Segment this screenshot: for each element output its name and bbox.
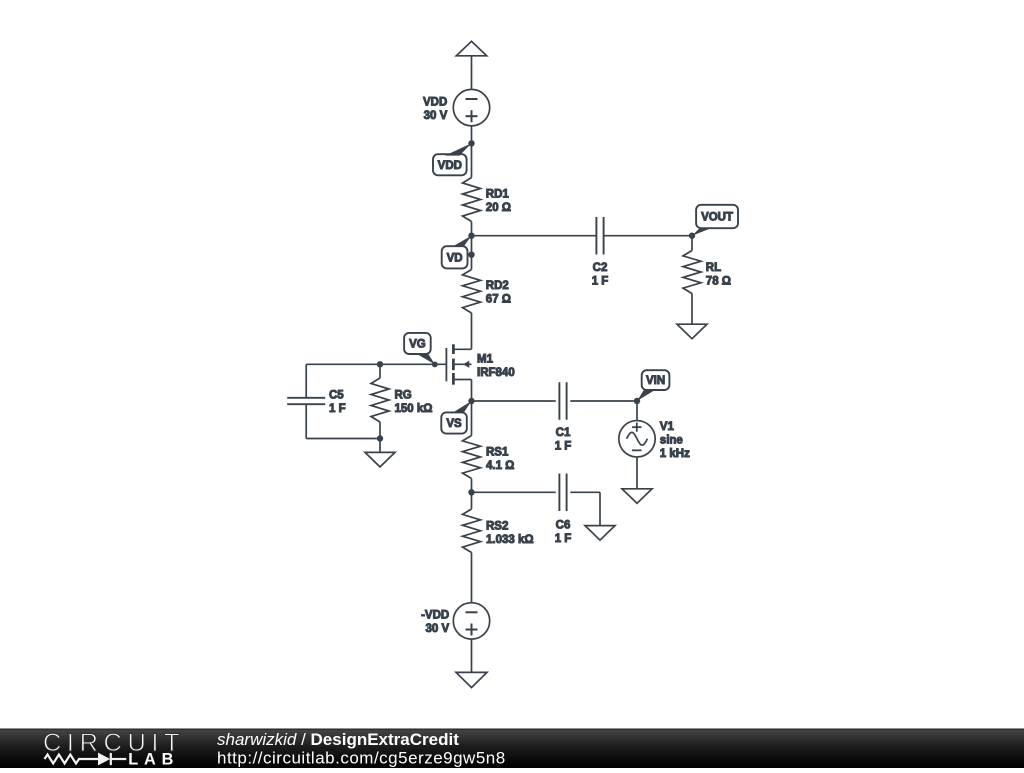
- svg-text:C5: C5: [329, 389, 344, 401]
- svg-text:4.1 Ω: 4.1 Ω: [486, 460, 514, 472]
- svg-text:30 V: 30 V: [424, 110, 448, 122]
- svg-text:IRF840: IRF840: [477, 367, 515, 379]
- svg-text:VIN: VIN: [646, 375, 665, 387]
- svg-text:C1: C1: [556, 427, 571, 439]
- svg-text:RG: RG: [395, 389, 412, 401]
- svg-text:VD: VD: [447, 252, 463, 264]
- svg-text:30 V: 30 V: [426, 623, 450, 635]
- svg-text:http://circuitlab.com/cg5erze9: http://circuitlab.com/cg5erze9gw5n8: [217, 748, 506, 767]
- svg-text:RS1: RS1: [486, 447, 509, 459]
- svg-text:M1: M1: [477, 353, 494, 365]
- svg-text:78 Ω: 78 Ω: [706, 275, 731, 287]
- svg-text:LAB: LAB: [128, 751, 179, 768]
- svg-text:150 kΩ: 150 kΩ: [395, 403, 433, 415]
- svg-text:sharwizkid / DesignExtraCredit: sharwizkid / DesignExtraCredit: [217, 730, 459, 749]
- svg-text:sine: sine: [660, 434, 683, 446]
- svg-text:VDD: VDD: [423, 97, 447, 109]
- svg-text:20 Ω: 20 Ω: [486, 202, 511, 214]
- svg-text:RD2: RD2: [486, 280, 509, 292]
- svg-text:C6: C6: [556, 519, 571, 531]
- svg-text:C2: C2: [593, 262, 608, 274]
- svg-text:RL: RL: [706, 262, 721, 274]
- svg-text:1 F: 1 F: [329, 403, 346, 415]
- svg-text:VOUT: VOUT: [701, 212, 733, 224]
- svg-text:VG: VG: [409, 339, 426, 351]
- svg-text:RS2: RS2: [486, 520, 508, 532]
- svg-text:1.033 kΩ: 1.033 kΩ: [486, 534, 534, 546]
- svg-text:1 F: 1 F: [555, 441, 572, 453]
- svg-text:VDD: VDD: [438, 160, 462, 172]
- svg-text:V1: V1: [660, 421, 675, 433]
- svg-text:1 F: 1 F: [592, 275, 609, 287]
- svg-text:-VDD: -VDD: [421, 610, 449, 622]
- svg-text:VS: VS: [446, 418, 462, 430]
- svg-text:RD1: RD1: [486, 189, 510, 201]
- svg-text:67 Ω: 67 Ω: [486, 294, 511, 306]
- svg-text:1 F: 1 F: [555, 533, 572, 545]
- svg-text:1 kHz: 1 kHz: [660, 448, 690, 460]
